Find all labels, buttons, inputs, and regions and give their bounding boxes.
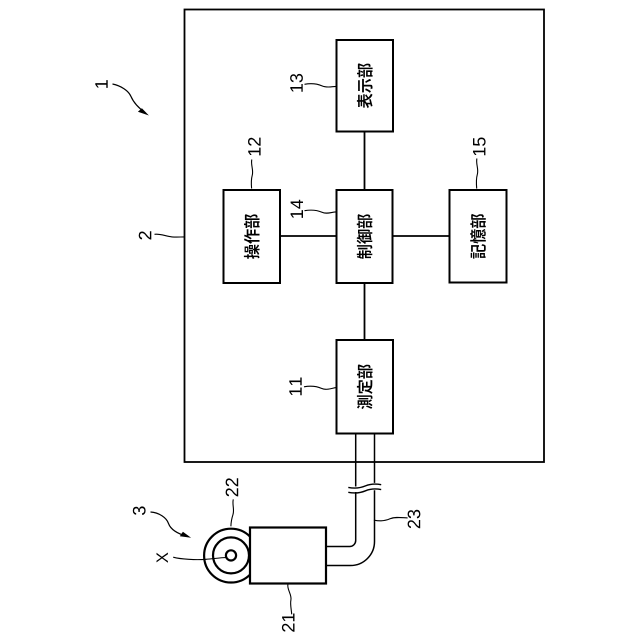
text 表示部 in block 13 display	[357, 63, 373, 108]
block 14 制御部 control unit box	[337, 190, 393, 283]
leader line from label 13 to display box	[305, 84, 337, 87]
leader line from label 12 to operation box	[251, 160, 252, 189]
reference numeral 22 (sensor head)	[226, 478, 239, 496]
label X (measurement target)	[157, 553, 168, 563]
text 記憶部 in block 15 storage	[470, 214, 486, 259]
reference numeral 21 (probe body)	[282, 614, 295, 632]
enclosure rectangle 2 (apparatus body)	[185, 10, 545, 463]
leader line from label 11 to measurement box	[304, 386, 336, 389]
sensor outer circle 22	[204, 529, 258, 583]
reference numeral 12 (operation unit)	[248, 138, 261, 156]
text 測定部 in block 11 measurement	[357, 364, 373, 409]
arrowhead for label 3	[180, 532, 191, 538]
leader line from label 14 to control box	[305, 210, 337, 213]
probe body rectangle 21 (drawn over outer circle)	[250, 528, 326, 584]
wire: control 14 to storage 15	[393, 235, 450, 237]
text 操作部 in block 12 operation	[244, 214, 260, 259]
reference numeral 23 (tube)	[408, 510, 421, 528]
reference numeral 14 (control unit)	[291, 200, 303, 218]
reference numeral 3 (sensor device)	[133, 506, 146, 515]
block 12 操作部 operation unit box	[224, 190, 281, 283]
arrowhead for label 1	[138, 108, 149, 115]
tube 23 left wall lower segment with inner bend	[327, 492, 356, 547]
leader line from label 21 to probe body	[288, 584, 292, 614]
reference numeral 11 (measurement unit)	[289, 378, 301, 396]
leader line from label 22 to sensor circle	[231, 499, 234, 526]
sensor middle circle	[213, 537, 249, 573]
tube 23 right wall lower segment with outer bend	[327, 490, 375, 565]
wire: control 14 to measurement 11	[364, 283, 366, 340]
tube 23 right wall upper segment	[374, 434, 376, 483]
reference numeral 15 (storage unit)	[473, 138, 486, 156]
block 13 表示部 display unit box	[337, 40, 394, 132]
tube 23 left wall upper segment	[355, 434, 357, 487]
leader line from label 2 to enclosure	[155, 234, 185, 237]
reference numeral 13 (display unit)	[290, 74, 303, 92]
arrow from label 3 to sensor	[151, 512, 188, 537]
tube break mark upper wavy line	[348, 484, 381, 488]
sensor small circle X	[226, 550, 236, 560]
text 制御部 in block 14 control	[357, 214, 373, 259]
leader line from label 23 to tube	[374, 517, 408, 520]
reference numeral 2 (apparatus)	[139, 231, 152, 239]
wire: display 13 to control 14	[364, 132, 366, 191]
wire: operation 12 to control 14	[280, 235, 337, 237]
block 15 記憶部 storage unit box	[450, 190, 507, 283]
leader line from label X to small circle	[173, 557, 226, 559]
arrow from label 1 to enclosure	[113, 84, 146, 113]
tube break mark lower wavy line	[348, 489, 381, 493]
leader line from label 15 to storage box	[476, 159, 477, 189]
block 11 測定部 measurement unit box	[337, 340, 394, 434]
reference numeral 1 (whole system)	[95, 80, 107, 88]
